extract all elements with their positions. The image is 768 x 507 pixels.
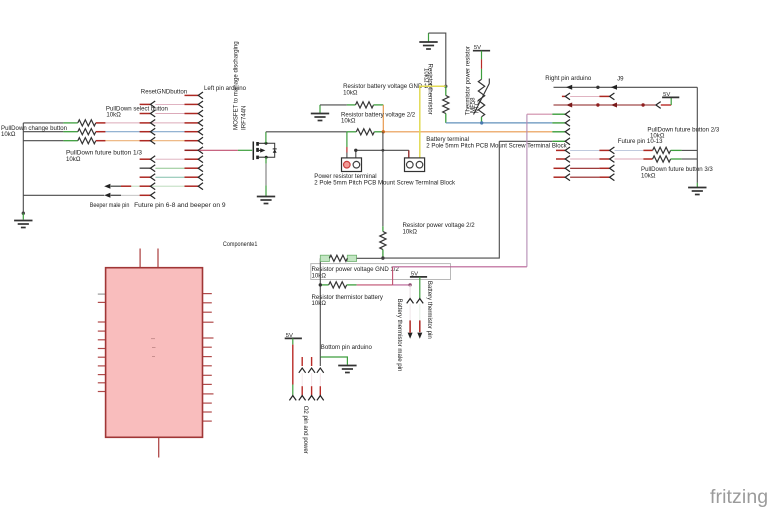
- wire: battery terminal pin1 dark red: [408, 150, 410, 158]
- svg-text:NTC: NTC: [474, 100, 481, 113]
- wire: yellow to battery terminal: [420, 86, 446, 158]
- wire: row 141.3 to right section: [499, 140, 552, 142]
- pin header J9 mid column lower rows: [599, 147, 614, 181]
- svg-text:10kΩ: 10kΩ: [641, 173, 656, 180]
- node: bus junction at thermistor battery: [319, 283, 322, 286]
- pin column 2 (x=302.2): [299, 357, 306, 400]
- wire: faint row8 green: [155, 167, 184, 169]
- wire: MOSFET drain riser green: [265, 132, 267, 144]
- pin header right column (Left pin arduino) rows 0-10: [185, 92, 204, 190]
- wire: right vertical to ground: [696, 87, 698, 187]
- svg-text:10kΩ: 10kΩ: [422, 68, 429, 83]
- wire: center vertical dark x=382.9: [382, 132, 384, 227]
- label PullDown future button 1/3 10k: [66, 150, 143, 163]
- power 5V (bottom left): [285, 333, 302, 339]
- svg-text:10kΩ: 10kΩ: [1, 131, 16, 138]
- svg-text:O2 pin and power: O2 pin and power: [302, 406, 309, 454]
- label ResetGNDbutton: [141, 88, 187, 95]
- resistor PullDown change button 1 (row3): [63, 120, 105, 126]
- svg-text:Beeper male pin: Beeper male pin: [90, 202, 130, 209]
- wire: row 177.2 dark red link: [570, 176, 599, 178]
- wire: crimson vertical x=392.6: [392, 267, 394, 285]
- label PullDown future button 3/3: [641, 166, 713, 179]
- wire: faint blue row 150.4 mid: [615, 149, 644, 151]
- resistor thermistor battery: [320, 282, 356, 288]
- wire: row A dark with arrows to right vertical: [554, 85, 698, 90]
- pin column 4 (bus, x=320.3): [317, 357, 324, 400]
- label Future pin 6-8 and beeper on 9: [134, 202, 226, 209]
- label J9: [617, 76, 624, 83]
- resistor battery voltage 2/2: [347, 129, 383, 135]
- wire: 5V green stem: [419, 277, 421, 299]
- svg-text:10kΩ: 10kΩ: [312, 300, 327, 307]
- wire: ground bus vertical (left): [22, 123, 24, 213]
- svg-text:10kΩ: 10kΩ: [343, 89, 358, 96]
- pin header middle column (Future pin 6-8 / beeper) rows 1-5,7-11: [140, 101, 156, 199]
- label Power resistor terminal: [314, 173, 456, 186]
- resistor thermistor (vertical): [443, 86, 449, 123]
- label Componente1: [223, 241, 258, 248]
- node: blue junction at thermistor: [480, 121, 483, 124]
- label Resistor power voltage GND 1/2: [312, 266, 400, 279]
- svg-text:MOSFET to manage discharging: MOSFET to manage discharging: [233, 41, 240, 130]
- resistor PullDown future button 2/3 (row 150.4): [643, 147, 697, 153]
- label Resistor thermistor battery: [312, 294, 384, 307]
- svg-text:2 Pole 5mm Pitch PCB Mount Scr: 2 Pole 5mm Pitch PCB Mount Screw TermIna…: [314, 180, 456, 187]
- wire: gate green segment: [238, 149, 252, 151]
- IC Componente1 (pink body): [98, 249, 214, 458]
- label Left pin arduino: [204, 85, 247, 92]
- label Right pin arduino: [545, 75, 592, 82]
- wire: green drop to power terminal pin1: [346, 132, 348, 158]
- ground (left bus): [14, 221, 32, 228]
- wire: dark loop right and up: [383, 141, 499, 258]
- label PullDown select button 10k: [106, 105, 168, 118]
- wire: row4 black to bus: [23, 131, 63, 133]
- svg-text:2 Pole 5mm Pitch PCB Mount Scr: 2 Pole 5mm Pitch PCB Mount Screw Termina…: [426, 142, 567, 149]
- label O2 pin and power (rotated): [302, 406, 309, 454]
- wire: faint row4 blue: [105, 131, 184, 133]
- label Battery thermistor pin (rotated): [426, 281, 433, 339]
- svg-text:10kΩ: 10kΩ: [403, 228, 418, 235]
- terminal block: battery terminal: [405, 158, 425, 172]
- svg-text:Future pin 6-8 and beeper on 9: Future pin 6-8 and beeper on 9: [134, 202, 226, 209]
- svg-text:Bottom pin arduino: Bottom pin arduino: [321, 344, 373, 351]
- label MOSFET to manage discharging (rotated): [233, 41, 248, 130]
- node: orange junction: [382, 130, 385, 133]
- resistor PullDown future button 3/3 (row 159): [643, 156, 697, 162]
- pin pair: battery thermistor male pin (x=410.1): [407, 285, 414, 339]
- wire: faint row 150.4 light blue: [570, 149, 599, 151]
- wire: purple vertical x=526.9: [526, 114, 528, 267]
- wire: faint rose row 159 mid: [615, 158, 644, 160]
- node: yellow junction: [444, 85, 447, 88]
- svg-text:10kΩ: 10kΩ: [106, 112, 121, 119]
- wire: row C dark red 5V feed: [554, 102, 672, 109]
- pin row B (96.4): [562, 93, 614, 100]
- svg-text:Right pin arduino: Right pin arduino: [545, 75, 592, 82]
- label Resistor power voltage 2/2: [403, 222, 476, 235]
- beeper male pin arrow row10: [104, 184, 131, 189]
- resistor PullDown change button 3 (row5): [63, 138, 105, 144]
- label Resistor thermistor (rotated): [422, 64, 433, 115]
- wire: row5 black to bus: [23, 140, 63, 142]
- label Thermistor power resistor (rotated): [464, 46, 480, 115]
- selection box (resistor power voltage GND 1/2): [311, 264, 451, 280]
- label Resistor battery voltage 2/2: [341, 111, 416, 124]
- svg-text:ResetGNDbutton: ResetGNDbutton: [141, 88, 187, 95]
- node: terminal junction dots: [354, 149, 384, 152]
- label Resistor battery voltage GND 1/2: [343, 83, 433, 96]
- wire: crimson row to pin column: [357, 284, 411, 286]
- wire: blue row: [446, 122, 553, 124]
- wire: faint row1: [155, 103, 184, 105]
- label PullDown change button 10k: [1, 125, 67, 138]
- label Bottom pin arduino: [321, 344, 373, 351]
- wire: faint row 159 rose: [570, 158, 599, 160]
- wire: orange corner down: [382, 105, 384, 132]
- svg-text:10kΩ: 10kΩ: [66, 156, 81, 163]
- svg-text:10kΩ: 10kΩ: [341, 118, 356, 125]
- label Future pin 10-13: [618, 138, 663, 145]
- wire: top ground to vertical: [429, 33, 446, 86]
- wire: 5V stem to thermistor: [481, 51, 483, 80]
- wire: ground to resistor battery GND 1/2: [320, 104, 347, 106]
- ground (right): [688, 188, 706, 195]
- ground (MOSFET source): [257, 197, 275, 204]
- label PullDown future button 2/3: [647, 126, 719, 139]
- svg-text:Future pin 10-13: Future pin 10-13: [618, 138, 663, 145]
- resistor power voltage 2/2 (vertical): [380, 226, 386, 258]
- wire: faint row7: [155, 158, 184, 160]
- pin pair: battery thermistor pin (x=419.8): [416, 299, 423, 339]
- power 5V (thermistor): [473, 45, 490, 51]
- wire: power terminal pin2: [355, 150, 357, 158]
- thermistor MF58 NTC: [474, 79, 490, 123]
- wire: drain row dark to resistor battery 2/2: [266, 131, 347, 133]
- resistor battery voltage GND 1/2: [347, 102, 383, 108]
- beeper male pin arrow row11: [104, 193, 121, 198]
- svg-text:Componente1: Componente1: [223, 241, 258, 248]
- wire: MOSFET source to ground: [265, 157, 267, 196]
- wire: faint row9 teal: [155, 176, 184, 178]
- svg-text:Left pin arduino: Left pin arduino: [204, 85, 247, 92]
- power 5V (battery thermistor): [410, 271, 427, 277]
- wire: bus corner to bottom ground: [320, 357, 347, 365]
- ground (battery GND 1/2): [311, 105, 329, 121]
- label Battery terminal: [426, 136, 567, 149]
- svg-text:Battery thermistor pin: Battery thermistor pin: [426, 281, 433, 339]
- svg-text:Battery thermistor male pin: Battery thermistor male pin: [396, 299, 403, 372]
- node: junction at resistor bottom: [381, 256, 384, 259]
- transistor Q1 MOSFET IRF744N: [253, 142, 276, 160]
- wire: magenta horizontal y=266.8: [393, 266, 527, 268]
- wire: terminal row black: [356, 149, 409, 151]
- wire: faint row10 pale green: [110, 185, 185, 187]
- pin column 3 (x=311.6): [308, 357, 315, 400]
- label Beeper male pin: [90, 202, 130, 209]
- wire: faint row3 pink: [105, 122, 184, 124]
- wire: orange row to right section: [383, 131, 552, 133]
- wire: row 168.3 dark red link: [570, 167, 599, 169]
- wire: row11 black beeper wire: [23, 194, 104, 196]
- wire: row3 black to bus: [23, 122, 63, 124]
- wire: gate crimson from right column row6: [199, 149, 238, 151]
- wire: faint row11 pale gray: [110, 194, 140, 196]
- node: magenta junction: [408, 283, 411, 286]
- ground (bottom pin arduino): [338, 366, 356, 373]
- wire: faint row5 orange: [105, 140, 184, 142]
- label Battery thermistor male pin (rotated): [396, 299, 403, 372]
- terminal block: power resistor terminal: [342, 158, 362, 172]
- svg-text:fritzing: fritzing: [710, 486, 768, 507]
- resistor PullDown change button 2 (row4): [63, 129, 105, 135]
- node: bus-ground junction: [22, 212, 25, 220]
- wire: rose row 114.2: [527, 113, 552, 115]
- wire: faint row2: [155, 113, 184, 115]
- svg-text:IRF744N: IRF744N: [241, 106, 248, 130]
- power 5V (right): [662, 92, 679, 105]
- resistor power voltage GND 1/2 (selected, green pin boxes): [320, 255, 383, 261]
- wire: left bus vertical x=320.3: [319, 258, 321, 357]
- svg-text:10kΩ: 10kΩ: [312, 273, 327, 280]
- svg-text:J9: J9: [617, 76, 624, 83]
- ground (top middle): [419, 33, 437, 49]
- pin header right-left column rows 114.2-177.2: [552, 111, 570, 181]
- fritzing watermark: [710, 486, 768, 507]
- pin column 1 (5V, x=292.8): [289, 338, 296, 400]
